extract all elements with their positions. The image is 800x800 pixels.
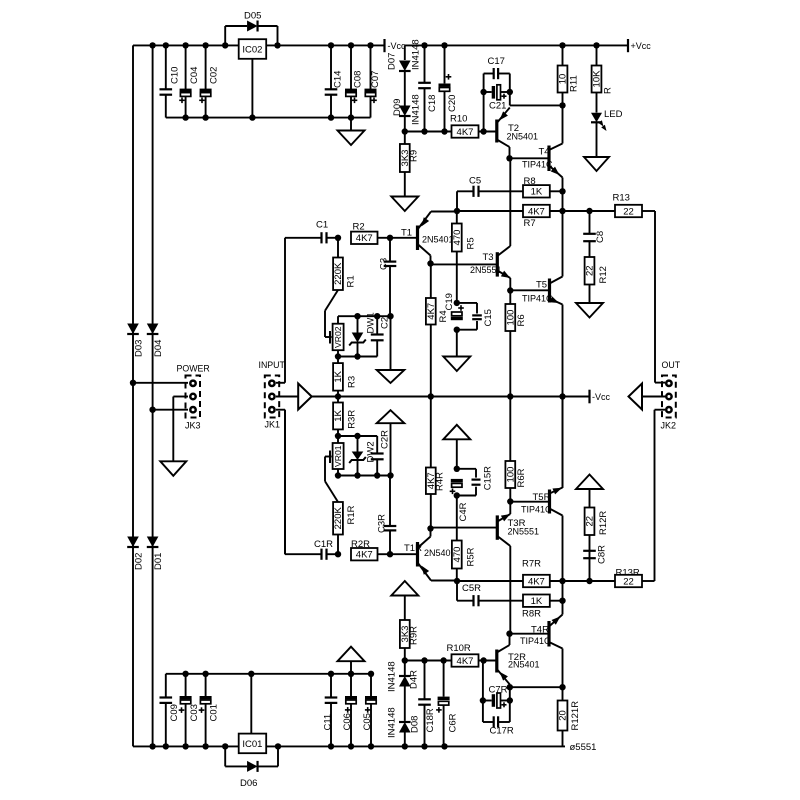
svg-text:4K7: 4K7	[528, 206, 545, 217]
svg-text:470: 470	[452, 230, 463, 246]
svg-text:OUT: OUT	[662, 360, 681, 370]
svg-text:R1R: R1R	[346, 505, 357, 524]
svg-text:R11: R11	[569, 75, 580, 92]
svg-text:C5: C5	[469, 176, 481, 187]
svg-text:4K7: 4K7	[426, 303, 437, 320]
svg-text:+Vcc: +Vcc	[631, 41, 652, 51]
svg-text:2N5551: 2N5551	[508, 527, 540, 537]
svg-text:R: R	[603, 87, 614, 94]
svg-text:R5R: R5R	[466, 547, 477, 566]
svg-text:C08: C08	[353, 71, 364, 88]
svg-text:C05: C05	[362, 713, 373, 730]
svg-text:1K: 1K	[333, 409, 344, 421]
svg-text:1K: 1K	[333, 370, 344, 382]
svg-text:R7: R7	[524, 218, 536, 229]
svg-text:220K: 220K	[333, 262, 344, 285]
svg-text:C8R: C8R	[597, 545, 608, 564]
svg-text:100: 100	[506, 310, 517, 326]
svg-text:D03: D03	[134, 340, 145, 357]
svg-text:22: 22	[623, 576, 634, 587]
svg-text:R12R: R12R	[598, 511, 609, 535]
svg-text:R6R: R6R	[516, 468, 527, 487]
svg-text:T4R: T4R	[531, 625, 549, 636]
svg-text:C20: C20	[447, 95, 458, 112]
svg-text:C11: C11	[322, 714, 333, 731]
svg-text:20: 20	[558, 710, 569, 721]
svg-text:-Vcc: -Vcc	[388, 41, 407, 51]
svg-text:D09: D09	[392, 99, 403, 116]
svg-text:10K: 10K	[592, 70, 603, 88]
svg-text:R12: R12	[598, 266, 609, 283]
svg-text:C07: C07	[370, 71, 381, 88]
svg-text:C6R: C6R	[448, 713, 459, 732]
svg-text:D05: D05	[244, 11, 261, 22]
svg-text:4K7: 4K7	[457, 656, 474, 667]
svg-text:T4: T4	[539, 147, 550, 158]
svg-text:TIP41C: TIP41C	[522, 294, 553, 304]
svg-text:4K7: 4K7	[457, 127, 474, 138]
svg-text:VR02: VR02	[333, 326, 343, 348]
svg-text:C4R: C4R	[458, 502, 469, 521]
svg-text:4K7: 4K7	[356, 233, 373, 244]
svg-text:DW1: DW1	[366, 312, 377, 333]
svg-text:JK1: JK1	[265, 420, 281, 430]
svg-text:C02: C02	[209, 67, 220, 84]
svg-text:IN4148: IN4148	[411, 39, 422, 70]
svg-text:VR01: VR01	[333, 445, 343, 467]
svg-text:2N5401: 2N5401	[508, 660, 540, 670]
svg-text:1K: 1K	[531, 596, 543, 607]
svg-text:ø5551: ø5551	[570, 742, 597, 753]
svg-text:C04: C04	[189, 67, 200, 84]
svg-text:R3: R3	[347, 376, 358, 388]
svg-text:4K7: 4K7	[356, 550, 373, 561]
svg-text:100: 100	[506, 467, 517, 483]
svg-text:22: 22	[585, 265, 596, 276]
svg-text:R4R: R4R	[435, 472, 446, 491]
svg-text:R7R: R7R	[522, 559, 541, 570]
svg-text:T3: T3	[483, 252, 494, 263]
svg-text:R10R: R10R	[447, 643, 471, 654]
svg-text:C1: C1	[316, 220, 328, 231]
svg-text:C8: C8	[595, 231, 606, 243]
svg-text:IC02: IC02	[242, 45, 262, 56]
svg-text:4K7: 4K7	[528, 576, 545, 587]
svg-text:R4: R4	[438, 310, 449, 322]
svg-text:C2R: C2R	[380, 430, 391, 449]
svg-text:22: 22	[585, 516, 596, 527]
svg-text:C3: C3	[379, 258, 390, 270]
svg-text:R10: R10	[450, 114, 467, 125]
svg-text:C14: C14	[333, 71, 344, 88]
svg-text:T1R: T1R	[404, 543, 422, 554]
svg-text:C21: C21	[489, 101, 506, 112]
svg-text:R6: R6	[516, 314, 527, 326]
svg-text:IN4148: IN4148	[387, 707, 398, 738]
svg-text:JK3: JK3	[185, 421, 201, 431]
svg-text:TIP41C: TIP41C	[522, 160, 553, 170]
svg-text:R13: R13	[613, 193, 630, 204]
svg-text:C15R: C15R	[483, 466, 494, 490]
svg-text:470: 470	[452, 547, 463, 563]
svg-text:-Vcc: -Vcc	[592, 392, 611, 402]
svg-text:R9R: R9R	[409, 626, 420, 645]
svg-text:R5: R5	[466, 237, 477, 249]
svg-text:2N5401: 2N5401	[422, 235, 454, 245]
svg-text:C09: C09	[169, 704, 180, 721]
svg-text:2N5401: 2N5401	[507, 132, 539, 142]
svg-text:D08: D08	[410, 716, 421, 733]
svg-text:C15: C15	[483, 309, 494, 326]
svg-text:IN4148: IN4148	[387, 661, 398, 692]
svg-text:T1: T1	[401, 228, 412, 239]
svg-text:R121R: R121R	[570, 701, 581, 731]
svg-text:TIP41C: TIP41C	[521, 505, 552, 515]
svg-text:2N5401: 2N5401	[424, 548, 456, 558]
svg-text:C01: C01	[209, 704, 220, 721]
svg-text:C19: C19	[444, 293, 455, 310]
svg-text:D07: D07	[387, 53, 398, 70]
svg-text:C5R: C5R	[462, 583, 481, 594]
svg-text:T5R: T5R	[533, 492, 551, 503]
svg-text:C1R: C1R	[314, 539, 333, 550]
svg-text:INPUT: INPUT	[259, 360, 286, 370]
svg-text:TIP41C: TIP41C	[520, 636, 551, 646]
svg-text:C06: C06	[342, 713, 353, 730]
svg-text:JK2: JK2	[661, 421, 677, 431]
svg-text:2N5551: 2N5551	[470, 265, 502, 275]
svg-text:R1: R1	[346, 275, 357, 287]
svg-text:C17R: C17R	[490, 726, 514, 737]
svg-text:IN4148: IN4148	[411, 94, 422, 125]
svg-text:R8R: R8R	[522, 609, 541, 620]
svg-text:D04: D04	[153, 340, 164, 357]
svg-text:D4R: D4R	[409, 670, 420, 689]
svg-text:LED: LED	[604, 109, 623, 120]
svg-text:POWER: POWER	[177, 364, 210, 374]
svg-text:R3R: R3R	[347, 410, 358, 429]
svg-text:C3R: C3R	[377, 514, 388, 533]
svg-text:D01: D01	[153, 553, 164, 570]
svg-text:T5: T5	[536, 280, 547, 291]
svg-text:10: 10	[558, 74, 569, 85]
svg-text:C10: C10	[170, 67, 181, 84]
svg-text:C7R: C7R	[489, 685, 508, 696]
svg-text:1K: 1K	[531, 187, 543, 198]
svg-text:R9: R9	[409, 150, 420, 162]
svg-text:C18: C18	[427, 95, 438, 112]
svg-text:C18R: C18R	[425, 708, 436, 732]
svg-text:C2: C2	[380, 317, 391, 329]
svg-text:22: 22	[623, 206, 634, 217]
svg-text:D06: D06	[240, 778, 257, 789]
svg-text:IC01: IC01	[242, 739, 262, 750]
svg-text:C17: C17	[488, 56, 505, 67]
svg-text:220K: 220K	[333, 506, 344, 529]
svg-text:C03: C03	[189, 704, 200, 721]
svg-text:D02: D02	[134, 553, 145, 570]
